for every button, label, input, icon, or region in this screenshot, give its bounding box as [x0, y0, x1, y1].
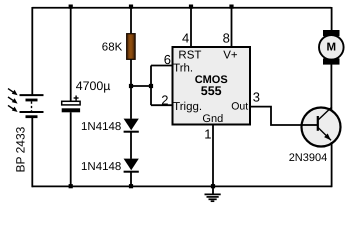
svg-text:M: M: [327, 41, 337, 53]
svg-text:1N4148: 1N4148: [81, 121, 121, 133]
wire pin 4: [190, 7, 192, 47]
node junction top rail / pin4: [189, 5, 193, 9]
svg-text:6: 6: [164, 52, 171, 67]
wire feed to 555 inputs: [131, 85, 151, 87]
wire pin 8: [231, 7, 233, 47]
wire left rail upper (to solar cell): [31, 7, 33, 95]
wire between diodes: [130, 133, 132, 159]
svg-text:4700µ: 4700µ: [76, 79, 111, 93]
svg-text:BP 2433: BP 2433: [14, 126, 28, 172]
wire emitter to bottom rail: [331, 142, 333, 187]
wire pin 6 stub: [151, 65, 172, 67]
light arrow 1: [8, 89, 18, 96]
svg-text:8: 8: [223, 31, 230, 46]
wire motor top: [331, 7, 333, 32]
light arrow 3: [8, 105, 18, 112]
node junction top rail / capacitor: [69, 5, 73, 9]
wire motor to collector: [330, 62, 332, 110]
node junction bottom rail / diodes: [129, 184, 133, 188]
wire top supply rail: [32, 7, 331, 9]
solar cell BP2433: [20, 95, 44, 118]
wire vertical link pin6-pin2: [150, 66, 152, 106]
wire capacitor bottom: [70, 112, 72, 187]
svg-text:Out: Out: [231, 101, 248, 113]
node junction resistor/diode/feed: [129, 84, 133, 88]
svg-text:555: 555: [201, 84, 222, 98]
svg-text:4: 4: [182, 31, 189, 46]
wire pin 2 stub: [151, 104, 172, 106]
svg-text:2N3904: 2N3904: [289, 152, 328, 164]
capacitor C1 4700u: [62, 96, 80, 113]
node junction top rail / pin8: [229, 5, 233, 9]
svg-text:Gnd: Gnd: [202, 113, 223, 125]
wire diode bottom: [130, 173, 132, 188]
node junction feed / link: [149, 84, 153, 88]
wire capacitor top: [70, 7, 72, 102]
node junction bottom rail / capacitor: [69, 184, 73, 188]
ground: [205, 186, 221, 201]
motor M1: [319, 30, 344, 65]
svg-text:2: 2: [161, 92, 168, 107]
diode D1 1N4148: [124, 119, 139, 133]
svg-text:1: 1: [204, 127, 211, 142]
diode D2 1N4148: [124, 159, 139, 173]
svg-text:1N4148: 1N4148: [81, 161, 121, 173]
wire pin 1 to ground rail: [212, 125, 214, 188]
svg-text:Trigg.: Trigg.: [173, 101, 202, 113]
wire bottom ground rail: [32, 185, 331, 187]
node junction bottom rail / pin1: [211, 184, 215, 188]
svg-text:RST: RST: [178, 49, 201, 61]
wire pin 3 out: [251, 107, 302, 125]
op-amp U1 CMOS 555: [173, 47, 251, 125]
svg-text:Trh.: Trh.: [173, 62, 193, 74]
light arrow 2: [8, 97, 18, 104]
node junction top rail / resistor: [129, 5, 133, 9]
svg-text:3: 3: [253, 90, 260, 105]
wire left rail lower (solar cell to bottom): [31, 118, 33, 188]
svg-text:V+: V+: [223, 49, 238, 61]
wire resistor top: [130, 7, 132, 34]
transistor Q1 2N3904: [301, 107, 341, 147]
wire resistor bottom to node: [130, 59, 132, 119]
svg-text:68K: 68K: [102, 42, 123, 54]
resistor R1 68K: [127, 34, 135, 60]
